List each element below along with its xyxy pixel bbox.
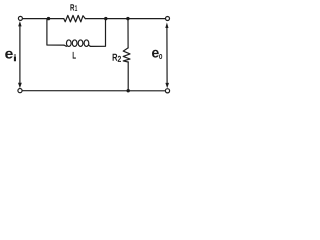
label L [73, 52, 76, 59]
e_i arrowhead up [18, 21, 21, 26]
e_i arrow line [19, 25, 21, 85]
label e_i 'i' [14, 55, 16, 62]
e_o arrow line [166, 25, 168, 84]
label R1 '1' [75, 5, 77, 11]
junction node bottom [127, 89, 130, 92]
resistor R2 branch wire lower [127, 62, 129, 90]
e_i arrowhead down [18, 83, 22, 88]
terminal bottom-right [165, 89, 169, 93]
resistor R2 branch wire upper [127, 19, 129, 48]
terminal top-right [166, 17, 170, 21]
label e_o 'o' [159, 54, 162, 59]
label e_o 'e' [152, 50, 159, 58]
junction node top-mid [104, 17, 107, 20]
terminal bottom-left [18, 89, 22, 93]
wire loop right vertical [91, 19, 106, 46]
inductor L [64, 45, 67, 46]
wire bottom [23, 90, 166, 92]
label R2 'R' [113, 54, 118, 61]
e_o arrowhead down [165, 83, 169, 88]
junction node top-right [126, 17, 129, 20]
label R1 'R' [70, 4, 74, 10]
resistor R1 [64, 15, 86, 22]
label e_i 'e' [5, 51, 13, 59]
label R2 '2' [118, 56, 121, 62]
junction node top-left [47, 17, 50, 20]
wire top right segment [85, 18, 165, 20]
wire loop left vertical [47, 19, 64, 45]
e_o arrowhead up [165, 22, 168, 28]
resistor R2 zigzag [123, 48, 130, 62]
wire top left segment [23, 18, 64, 20]
terminal top-left [18, 16, 22, 20]
